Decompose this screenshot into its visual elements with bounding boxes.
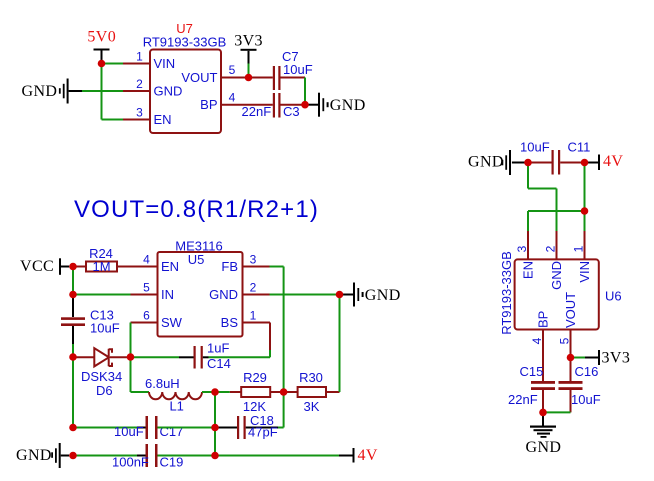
svg-text:L1: L1 — [169, 399, 183, 414]
ground GND top right — [468, 150, 525, 175]
svg-text:3V3: 3V3 — [234, 33, 263, 50]
svg-text:C19: C19 — [160, 455, 184, 470]
node 4V row junction — [211, 452, 219, 460]
wire C14 row left — [131, 356, 180, 358]
IC U5 body — [158, 252, 243, 337]
power flag 3V3 — [234, 33, 263, 78]
capacitor C19 — [112, 444, 183, 470]
wire gnd rail down to C17 row — [72, 357, 74, 428]
pin 5 IN U5 — [131, 294, 158, 296]
svg-text:GND: GND — [330, 97, 366, 114]
inductor L1 6.8uH — [145, 376, 202, 414]
node gnd bottom junction — [539, 409, 547, 417]
capacitor C17 — [114, 416, 183, 439]
svg-text:1M: 1M — [92, 259, 110, 274]
pin 2 GND U7 — [123, 90, 150, 92]
ground GND left of U7 — [22, 79, 83, 104]
pin 1 BS U5 — [243, 322, 271, 324]
svg-text:10uF: 10uF — [571, 392, 601, 407]
wire 4V column down — [584, 163, 586, 232]
node IN junction — [69, 291, 77, 299]
resistor R24 — [86, 246, 117, 274]
node 3V3 out junction — [567, 354, 575, 362]
svg-text:EN: EN — [520, 261, 535, 279]
svg-text:12K: 12K — [243, 399, 266, 414]
pin 3 EN U7 — [123, 119, 150, 121]
port 3V3 right — [571, 350, 631, 367]
port 4V right — [585, 153, 624, 170]
svg-text:GND: GND — [16, 447, 52, 464]
svg-text:10uF: 10uF — [283, 62, 313, 77]
svg-text:3: 3 — [515, 245, 529, 252]
IC U6 body — [515, 259, 599, 329]
svg-text:EN: EN — [154, 112, 172, 127]
wire C7 to gnd column — [281, 77, 306, 79]
svg-text:EN: EN — [161, 259, 179, 274]
svg-text:C17: C17 — [160, 424, 184, 439]
resistor R30 — [284, 370, 340, 414]
svg-text:RT9193-33GB: RT9193-33GB — [499, 251, 514, 335]
svg-text:2: 2 — [544, 245, 558, 252]
capacitor C15 — [508, 364, 555, 412]
node C11 left junction — [524, 159, 532, 167]
ground GND bottom right — [526, 412, 562, 456]
pin 6 SW U5 — [131, 322, 158, 324]
svg-text:IN: IN — [161, 287, 174, 302]
svg-text:C3: C3 — [283, 104, 300, 119]
wire L1 to output node — [202, 391, 215, 393]
svg-text:4V: 4V — [603, 153, 623, 170]
wire SW node down to L1 — [130, 357, 132, 392]
pin 4 BP U6 — [542, 330, 544, 382]
wire L1 left — [131, 391, 150, 393]
svg-text:47pF: 47pF — [248, 425, 278, 440]
capacitor C18 — [215, 413, 278, 440]
ground GND bottom left — [16, 443, 69, 468]
wire C3 to node — [281, 104, 306, 106]
node VCC junction — [69, 263, 77, 271]
node C18 left junction — [211, 424, 219, 432]
wire 5V0 down to EN row — [101, 64, 103, 120]
capacitor C11 — [520, 140, 590, 175]
wire 4V row — [215, 455, 339, 457]
svg-text:100nF: 100nF — [112, 455, 149, 470]
wire C14 to BS column — [209, 356, 271, 358]
svg-text:1: 1 — [572, 245, 586, 252]
wire gnd jog right — [528, 188, 557, 190]
wire BS down — [269, 323, 271, 358]
svg-text:4: 4 — [143, 253, 150, 267]
wire VCC down to IN — [72, 267, 74, 295]
wire SW down to diode node — [130, 323, 132, 358]
svg-text:SW: SW — [161, 315, 183, 330]
svg-text:3K: 3K — [304, 399, 320, 414]
wire R30 up to GND row — [339, 295, 341, 393]
wire EN row — [102, 119, 124, 121]
wire 5V0 to pin1 — [102, 63, 124, 65]
wire VCC to R24 — [73, 266, 86, 268]
svg-text:BP: BP — [535, 311, 550, 328]
svg-text:1uF: 1uF — [207, 341, 229, 356]
svg-text:R29: R29 — [243, 370, 267, 385]
wire GND to pin2 — [82, 90, 123, 92]
node C19 left junction — [69, 452, 77, 460]
svg-text:GND: GND — [468, 154, 504, 171]
svg-text:5: 5 — [229, 63, 236, 77]
wire GND row right — [270, 294, 340, 296]
wire gnd jog to pin2 — [556, 189, 558, 232]
svg-text:3: 3 — [250, 253, 257, 267]
svg-text:VIN: VIN — [577, 261, 592, 283]
node 3V3 junction — [245, 74, 253, 82]
port 4V bottom — [339, 447, 378, 464]
svg-text:GND: GND — [154, 83, 183, 98]
svg-text:4: 4 — [530, 337, 544, 344]
pin 5 VOUT U7 — [221, 77, 273, 79]
svg-text:5: 5 — [143, 281, 150, 295]
svg-text:10uF: 10uF — [114, 424, 144, 439]
wire C19 row left — [73, 455, 137, 457]
wire EN column down — [527, 211, 529, 231]
svg-text:GND: GND — [526, 439, 562, 456]
wire gnd column — [304, 78, 306, 105]
svg-text:2: 2 — [250, 281, 257, 295]
pin 2 GND U5 — [243, 294, 270, 296]
svg-text:DSK34: DSK34 — [81, 369, 122, 384]
svg-text:4V: 4V — [358, 447, 378, 464]
svg-text:GND: GND — [22, 83, 58, 100]
svg-text:U6: U6 — [605, 289, 622, 304]
wire EN row — [528, 210, 585, 212]
svg-text:VOUT: VOUT — [181, 70, 217, 85]
wire C17 to output column — [158, 427, 216, 429]
ground GND right of U7 — [305, 93, 366, 117]
svg-text:10uF: 10uF — [520, 140, 550, 155]
node 5V0 junction — [98, 60, 106, 68]
svg-text:VCC: VCC — [20, 258, 54, 275]
pin 3 FB U5 — [243, 266, 270, 268]
svg-text:D6: D6 — [96, 383, 113, 398]
svg-text:1: 1 — [136, 50, 143, 64]
capacitor C16 — [559, 364, 601, 412]
pin 2 GND U6 — [556, 231, 558, 259]
wire C16 to gnd node — [543, 411, 571, 413]
svg-text:3: 3 — [136, 106, 143, 120]
port VCC — [20, 258, 69, 275]
wire output column down — [214, 392, 216, 456]
svg-text:RT9193-33GB: RT9193-33GB — [143, 35, 227, 50]
svg-text:3V3: 3V3 — [602, 350, 631, 367]
svg-text:5V0: 5V0 — [87, 29, 116, 46]
svg-text:4: 4 — [229, 91, 236, 105]
svg-text:VIN: VIN — [154, 56, 176, 71]
svg-text:22nF: 22nF — [508, 392, 538, 407]
svg-text:VOUT: VOUT — [563, 292, 578, 328]
node diode anode junction — [69, 353, 77, 361]
pin 1 VIN U7 — [123, 63, 150, 65]
node 4V top junction — [581, 159, 589, 167]
node FB divider junction — [280, 388, 288, 396]
svg-text:2: 2 — [136, 77, 143, 91]
pin 4 BP U7 — [221, 104, 273, 106]
power flag 5V0 — [87, 29, 116, 64]
wire IN row — [73, 294, 131, 296]
svg-text:GND: GND — [365, 287, 401, 304]
wire C17 row left — [73, 427, 137, 429]
node EN tap junction — [581, 207, 589, 215]
wire C13 to gnd rail — [72, 344, 74, 357]
svg-text:1: 1 — [250, 309, 257, 323]
node C17 left junction — [69, 424, 77, 432]
svg-text:C15: C15 — [520, 364, 544, 379]
diode D6 DSK34 — [73, 348, 127, 398]
pin 5 VOUT U6 — [570, 330, 572, 382]
svg-text:6: 6 — [143, 309, 150, 323]
pin 1 VIN U6 — [584, 231, 586, 259]
resistor R29 — [230, 370, 284, 414]
wire FB column down — [283, 267, 285, 393]
node GND junction — [336, 291, 344, 299]
wire FB right — [270, 266, 284, 268]
svg-text:5: 5 — [558, 337, 572, 344]
ground GND right of U5 — [340, 283, 401, 307]
capacitor C7 — [273, 49, 313, 90]
wire output node to R29 — [215, 391, 230, 393]
IC U7 body — [150, 50, 221, 134]
capacitor C14 — [179, 341, 231, 372]
svg-text:VOUT=0.8(R1/R2+1): VOUT=0.8(R1/R2+1) — [74, 196, 319, 223]
svg-text:BP: BP — [200, 97, 217, 112]
capacitor C3 — [242, 93, 300, 119]
pin 3 EN U6 — [527, 231, 529, 259]
svg-text:R30: R30 — [299, 370, 323, 385]
svg-text:C16: C16 — [575, 364, 599, 379]
wire R24 to pin4 — [117, 266, 158, 268]
svg-text:FB: FB — [221, 259, 238, 274]
capacitor C13 — [61, 296, 120, 344]
svg-text:10uF: 10uF — [90, 321, 120, 336]
node L1 output junction — [211, 388, 219, 396]
svg-text:GND: GND — [209, 287, 238, 302]
svg-text:GND: GND — [549, 261, 564, 290]
svg-text:C11: C11 — [568, 140, 591, 155]
svg-text:6.8uH: 6.8uH — [145, 376, 180, 391]
wire gnd jog down — [527, 163, 529, 189]
svg-text:BS: BS — [221, 315, 239, 330]
node SW diode junction — [127, 353, 135, 361]
node C3 gnd junction — [301, 101, 309, 109]
wire C18 to FB column — [278, 392, 284, 428]
svg-text:U5: U5 — [188, 252, 205, 267]
svg-text:22nF: 22nF — [242, 104, 272, 119]
wire C19 to output column — [158, 455, 216, 457]
